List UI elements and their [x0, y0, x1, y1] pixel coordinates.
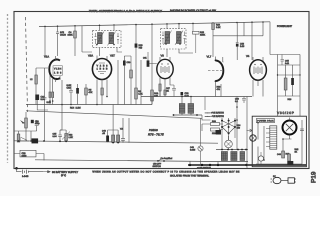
- svg-text:700: 700: [139, 46, 143, 49]
- svg-text:POWER LIGHT: POWER LIGHT: [277, 25, 293, 28]
- svg-text:L2: L2: [30, 78, 33, 81]
- svg-text:0.05: 0.05: [240, 45, 245, 48]
- svg-text:0.01: 0.01: [285, 62, 290, 65]
- resistor R10: [151, 90, 154, 101]
- svg-text:.01: .01: [166, 90, 170, 93]
- svg-text:P19: P19: [311, 171, 318, 183]
- resistor R40: [282, 151, 285, 158]
- transformer T3 (mains): [258, 156, 263, 161]
- wire AVC bus left: [26, 104, 152, 106]
- svg-text:C39: C39: [22, 152, 27, 155]
- capacitor C35: [278, 55, 301, 66]
- capacitor C15 (black): [32, 138, 39, 143]
- svg-text:0.04: 0.04: [47, 101, 52, 104]
- svg-text:0.005: 0.005: [190, 149, 196, 152]
- resistor R2: [74, 31, 77, 38]
- capacitor C11 (black): [147, 60, 150, 66]
- capacitor C14a: [58, 130, 62, 141]
- wire x237: [236, 97, 238, 151]
- svg-text:470: 470: [217, 88, 221, 91]
- label power pack unit: [256, 119, 274, 123]
- wire grid drop: [82, 26, 92, 52]
- resistor R18: [112, 135, 115, 142]
- svg-text:WHEN USING AN OUTPUT METER DO: WHEN USING AN OUTPUT METER DO NOT CONNEC…: [92, 171, 239, 174]
- wire bottom left drops: [14, 141, 44, 169]
- capacitor C40: [300, 129, 304, 131]
- volume control VR1: [25, 112, 27, 118]
- resistor R9: [135, 88, 138, 99]
- wire V1 anode drop: [44, 27, 46, 58]
- svg-text:TOTAL CURRENT FROM A.C./D.C. W: TOTAL CURRENT FROM A.C./D.C. WITH H.T. S…: [89, 9, 162, 13]
- svg-text:C28: C28: [185, 92, 190, 95]
- resistor R12: [65, 134, 68, 142]
- capacitor C30: [242, 97, 246, 104]
- wire x62: [60, 80, 62, 130]
- svg-text:ISOLATED FROM THE TERMINAL: ISOLATED FROM THE TERMINAL: [170, 174, 210, 177]
- output transformer T2: [216, 149, 248, 162]
- wire x129 drop: [128, 118, 130, 143]
- svg-text:0.04: 0.04: [185, 95, 190, 98]
- svg-text:V3: V3: [161, 55, 165, 58]
- svg-text:0.04: 0.04: [53, 135, 58, 138]
- capacitor C33 (black): [216, 130, 222, 135]
- resistor R41: [288, 154, 291, 161]
- svg-text:—·— −VE EARTH: —·— −VE EARTH: [205, 115, 224, 118]
- svg-text:V1B4: V1B4: [54, 68, 62, 71]
- jack J1: [198, 146, 203, 151]
- svg-text:R39: R39: [288, 98, 293, 101]
- svg-text:SWITCH: SWITCH: [153, 165, 162, 168]
- capacitor C20 (black): [31, 120, 34, 123]
- wire drop x152: [151, 24, 153, 90]
- wire V4 anode drop: [251, 22, 253, 60]
- battery cell B2: [23, 170, 29, 174]
- choke L7 box: [20, 150, 36, 157]
- speaker feed wires: [270, 55, 300, 117]
- svg-text:47K: 47K: [89, 91, 93, 94]
- svg-text:100K: 100K: [68, 34, 74, 37]
- svg-text:0.1: 0.1: [235, 100, 239, 103]
- resistor R31: [211, 128, 220, 131]
- svg-text:V2T: V2T: [110, 55, 115, 58]
- svg-text:90 BATTERY SUPPLY: 90 BATTERY SUPPLY: [52, 171, 78, 174]
- svg-text:R42: R42: [295, 148, 300, 151]
- resistor R16: [18, 131, 20, 134]
- svg-text:C1CB: C1CB: [60, 34, 66, 37]
- battery B1: [17, 138, 29, 141]
- svg-text:R78 - 78.75: R78 - 78.75: [148, 132, 164, 136]
- svg-text:C27: C27: [166, 87, 171, 90]
- capacitor C13 (black): [35, 95, 39, 101]
- resistor R5: [85, 84, 87, 88]
- wire bus jog: [141, 97, 152, 105]
- svg-text:R14 2.2M: R14 2.2M: [70, 107, 81, 110]
- svg-text:3.9K: 3.9K: [216, 26, 221, 29]
- svg-text:C25: C25: [240, 43, 245, 46]
- svg-text:MAXIMUM POWER OUTPUT at 3W: MAXIMUM POWER OUTPUT at 3W: [170, 9, 216, 13]
- wire earth bus thick: [188, 164, 306, 166]
- svg-text:ON-OFF: ON-OFF: [153, 163, 162, 166]
- capacitor C12 (black): [135, 44, 138, 48]
- phase splitter bridge: [221, 118, 241, 150]
- note battery supply: [43, 171, 51, 173]
- battery cable plug P1: [271, 175, 297, 184]
- capacitor C37 (black): [291, 78, 294, 85]
- svg-text:VL7: VL7: [207, 56, 212, 59]
- svg-text:R20: R20: [139, 44, 144, 47]
- capacitor C27: [172, 85, 176, 97]
- wire IFT2 leads: [167, 24, 193, 57]
- svg-text:V30/20P: V30/20P: [277, 111, 295, 115]
- driver transformer T1: [173, 96, 202, 116]
- wire to diamond: [202, 115, 223, 131]
- svg-text:C44: C44: [277, 153, 282, 156]
- svg-text:1B6: 1B6: [54, 72, 62, 75]
- thermistor: [225, 140, 233, 148]
- svg-text:1B8B: 1B8B: [97, 68, 108, 71]
- cathode resistors V3: [159, 84, 161, 91]
- aerial coil L1: [36, 68, 48, 75]
- connector SK1: [266, 126, 277, 149]
- wire AF bus y118: [26, 111, 202, 119]
- svg-text:+C43 SWITCH: +C43 SWITCH: [197, 166, 211, 169]
- pilot lamp LP1: [283, 118, 297, 140]
- wire screen bus right: [141, 96, 252, 98]
- resistor R22: [193, 31, 200, 34]
- capacitor C2: [56, 26, 59, 56]
- junction dots power: [257, 122, 259, 124]
- svg-text:(9 V): (9 V): [61, 174, 66, 177]
- wire drop x136: [135, 25, 137, 44]
- cathode resistors V1: [50, 79, 53, 92]
- capacitor C1: [43, 68, 47, 141]
- tube V3: [157, 55, 174, 97]
- page binding edge: [7, 14, 9, 163]
- capacitor C17: [121, 118, 125, 143]
- capacitor C19 (black): [77, 84, 79, 88]
- wire mid-right rail: [213, 22, 263, 36]
- resistor R30: [211, 123, 220, 126]
- svg-text:C10: C10: [127, 61, 132, 64]
- svg-text:C11: C11: [143, 57, 148, 60]
- svg-text:V1A: V1A: [44, 56, 49, 59]
- svg-text:C30: C30: [235, 98, 240, 101]
- IF transformer IFT1: [93, 30, 122, 47]
- bus junction dots: [44, 26, 46, 28]
- IF transformer IFT2: [161, 29, 186, 49]
- battery supply wire: [17, 169, 44, 172]
- power pack box: [252, 116, 306, 167]
- svg-text:POWER PACK: POWER PACK: [257, 120, 274, 123]
- svg-text:R24: R24: [216, 24, 221, 27]
- wire x141 drop: [140, 60, 142, 97]
- svg-text:R5: R5: [89, 89, 93, 92]
- svg-text:1C5: 1C5: [60, 31, 65, 34]
- box left arrow: [247, 129, 253, 132]
- tube V4: [246, 55, 266, 97]
- svg-text:R10: R10: [154, 92, 159, 95]
- pot wiper arrow: [60, 130, 70, 140]
- svg-text:1000: 1000: [22, 155, 28, 158]
- wire x118 drop: [117, 60, 119, 105]
- resistor R38: [284, 78, 287, 90]
- wires inside power box: [258, 123, 292, 164]
- tube V2: [88, 55, 115, 105]
- wire x188 drop: [190, 161, 218, 165]
- capacitor C14: [35, 120, 39, 131]
- svg-text:470p: 470p: [35, 122, 40, 125]
- svg-text:100K: 100K: [200, 34, 206, 37]
- resistor R19: [117, 135, 120, 142]
- svg-text:—·— +VE EARTH: —·— +VE EARTH: [205, 112, 224, 115]
- resistor R8: [130, 62, 132, 70]
- wire h131: [14, 131, 37, 141]
- svg-text:1K: 1K: [295, 151, 298, 154]
- wire speaker mid rung: [278, 74, 301, 76]
- capacitor C10: [123, 61, 126, 66]
- wire x247 feed: [246, 97, 248, 169]
- svg-text:V2A: V2A: [88, 55, 93, 58]
- svg-text:R22: R22: [200, 31, 205, 34]
- wire IFT1 leads: [100, 26, 123, 56]
- resistor R24: [212, 21, 214, 24]
- capacitor C28: [181, 92, 184, 95]
- svg-text:V4: V4: [246, 55, 250, 58]
- svg-text:C4: C4: [69, 31, 73, 34]
- svg-text:R26: R26: [217, 86, 222, 89]
- svg-text:1-B4B: 1-B4B: [22, 175, 29, 178]
- capacitor C16 (black): [106, 136, 109, 142]
- tube V5: [207, 56, 224, 97]
- wire earth stub: [204, 97, 206, 111]
- border frame: [14, 12, 309, 169]
- tube V1: [44, 56, 62, 82]
- svg-text:1.5K: 1.5K: [69, 136, 74, 139]
- wire x270 drop: [269, 22, 271, 55]
- capacitor C41 (black): [287, 161, 293, 166]
- wire HT+ top bus: [39, 22, 270, 27]
- junction dots avc: [96, 104, 98, 106]
- wire lower bus: [14, 141, 218, 143]
- capacitor C25: [236, 22, 239, 42]
- wire switch bus: [35, 160, 216, 162]
- wire aerial dashed: [26, 17, 28, 112]
- svg-text:10K: 10K: [154, 95, 158, 98]
- capacitor C18: [69, 84, 73, 105]
- resistor R7: [101, 88, 103, 95]
- rectifier MR1: [250, 135, 256, 141]
